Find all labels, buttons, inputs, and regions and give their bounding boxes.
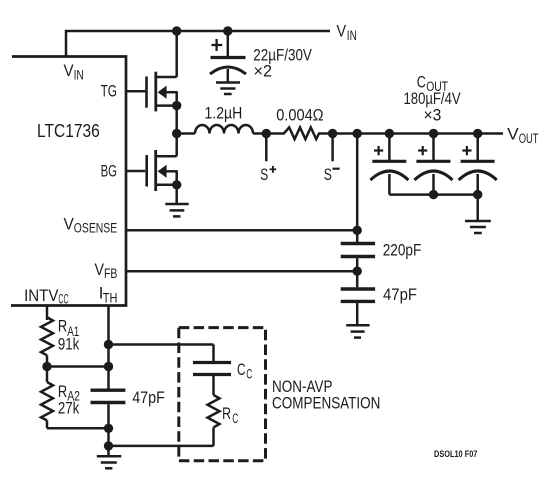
node label S- superscript minus [333, 168, 340, 170]
label NON-AVP COMPENSATION [272, 377, 380, 413]
wire RA1 to divider node [46, 355, 49, 366]
wire ITH to compensation [109, 343, 214, 346]
node S- junction [328, 129, 337, 138]
value label 22uF/30V x2 [253, 46, 312, 81]
svg-text:R: R [222, 404, 231, 423]
net label VIN [337, 22, 357, 44]
pin ITH label [99, 284, 118, 307]
value label 47pF [132, 388, 165, 407]
wire VIN feed from box top to rail [66, 31, 330, 57]
node junction on VIN rail at C1 [223, 26, 232, 35]
node junction C4 bottom [104, 424, 113, 433]
svg-text:V: V [507, 124, 519, 143]
svg-text:S: S [324, 165, 332, 184]
wire RA2 bottom to ground column [47, 427, 109, 430]
pin BG label [101, 161, 117, 180]
svg-text:S: S [260, 165, 268, 184]
value label CC [237, 360, 252, 382]
svg-text:R: R [58, 317, 67, 336]
wire ground stub [107, 446, 110, 455]
svg-text:LTC1736: LTC1736 [37, 120, 100, 141]
svg-text:IN: IN [347, 28, 357, 44]
node junction feedback tap [353, 129, 362, 138]
wire Q1 drain to VIN rail [175, 31, 178, 77]
svg-text:×2: ×2 [254, 62, 273, 81]
IC U1 LTC1736 controller box [11, 57, 126, 306]
svg-text:INTV: INTV [24, 286, 59, 305]
resistor RA1 91k [41, 317, 53, 355]
value label 1.2uH [205, 104, 243, 123]
svg-text:TG: TG [101, 81, 117, 100]
node Q2 source/body junction [172, 180, 181, 189]
node junction COUT c [473, 129, 482, 138]
svg-text:OUT: OUT [519, 131, 539, 147]
svg-text:IN: IN [74, 67, 84, 83]
node junction on VIN rail at Q1 drain [172, 26, 181, 35]
resistor RA2 27k [41, 367, 53, 429]
inductor L1 1.2uH [177, 125, 267, 134]
wire ITH to CC [212, 345, 215, 362]
svg-text:0.004Ω: 0.004Ω [276, 105, 323, 124]
node ground junction [104, 441, 113, 450]
node junction COUT bottom b [429, 190, 438, 199]
pin TG label [101, 81, 117, 100]
wire TG pin to Q1 gate [126, 90, 145, 93]
resistor RSENSE 0.004 ohm [266, 127, 332, 139]
svg-text:C: C [232, 411, 238, 427]
value label 220pF [383, 240, 422, 259]
capacitor COUT c 180uF [459, 134, 497, 195]
svg-text:OSENSE: OSENSE [74, 221, 117, 237]
node label S- [324, 165, 332, 184]
pin VFB label [95, 260, 118, 282]
wire RC bottom return [109, 445, 214, 448]
figure label DSOL10 F07 [434, 449, 477, 460]
value label COUT 180uF/4V x3 [404, 73, 462, 125]
svg-text:47pF: 47pF [383, 285, 417, 304]
node switch node junction [172, 129, 181, 138]
wire BG pin to Q2 gate [126, 170, 145, 173]
svg-text:DSOL10 F07: DSOL10 F07 [434, 449, 477, 460]
wire INTVCC pin down [46, 306, 49, 321]
node junction COUT bottom c [473, 190, 482, 199]
dashed compensation box [179, 328, 266, 461]
pin VOSENSE label [64, 214, 118, 236]
resistor RC [208, 395, 220, 427]
svg-text:TH: TH [103, 290, 118, 306]
wire VFB line [126, 270, 357, 273]
node label S+ superscript plus [270, 166, 277, 173]
wire divider node to ITH column [47, 365, 109, 368]
svg-text:91k: 91k [58, 335, 80, 354]
value label RA1 91k [58, 317, 80, 354]
node junction VOSENSE tap [353, 226, 362, 235]
svg-text:V: V [337, 22, 347, 41]
wire ITH pin down [107, 306, 110, 345]
node junction ITH/divider [104, 362, 113, 371]
svg-text:FB: FB [104, 266, 117, 282]
value label RC [222, 404, 238, 427]
node Q1 source/body junction [172, 101, 181, 110]
wire VOSENSE line [126, 229, 357, 232]
value label RA2 27k [58, 382, 80, 418]
node junction COUT a [385, 129, 394, 138]
svg-text:×3: ×3 [424, 105, 442, 124]
wire COUT bottom bus [389, 193, 477, 196]
svg-text:CC: CC [58, 291, 68, 307]
capacitor COUT b 180uF [415, 134, 453, 195]
ground under C1 [216, 83, 240, 95]
wire Q1 source to switch node [175, 106, 178, 134]
ground bottom network [97, 456, 122, 468]
capacitor C3 47pF [341, 271, 375, 324]
node junction VFB tap [353, 267, 362, 276]
ground under COUT [465, 221, 491, 233]
value label 0.004 ohm [276, 105, 323, 124]
ground under C3 [346, 325, 369, 337]
svg-text:C: C [246, 366, 252, 382]
capacitor CC [193, 363, 231, 375]
svg-text:47pF: 47pF [132, 388, 165, 407]
wire COUT bus to ground [476, 195, 479, 220]
node S+ junction [262, 129, 271, 138]
wire Q2 source to ground [175, 185, 178, 203]
svg-text:1.2µH: 1.2µH [205, 104, 243, 123]
capacitor COUT a 180uF [370, 134, 408, 195]
svg-text:BG: BG [101, 161, 117, 180]
svg-text:COMPENSATION: COMPENSATION [272, 394, 380, 413]
wire to ground node [107, 428, 110, 446]
value label 47pF [383, 285, 417, 304]
wire ITH column [107, 345, 110, 389]
net label VOUT [507, 124, 539, 147]
capacitor C2 220pF [341, 244, 375, 272]
node label S+ [260, 165, 268, 184]
U1 part label LTC1736 [37, 120, 100, 141]
svg-text:220pF: 220pF [383, 240, 422, 259]
node ITH junction [104, 340, 113, 349]
wire CC to RC [212, 376, 215, 395]
node divider junction [42, 362, 51, 371]
wire Q2 drain to switch node [175, 134, 178, 157]
pin INTVCC label [24, 286, 68, 308]
wire RC to return [212, 427, 215, 446]
svg-text:C: C [237, 360, 246, 379]
ground under Q2 [165, 204, 188, 216]
pin VIN label [64, 61, 84, 83]
wire S+ stub [265, 134, 268, 162]
wire VOUT rail [333, 132, 503, 135]
svg-text:27k: 27k [58, 399, 80, 418]
capacitor C1 22uF/30V input cap [210, 31, 246, 82]
transistor Q1 top N-MOSFET [147, 72, 178, 112]
wire feedback column upper [356, 134, 359, 243]
transistor Q2 bottom N-MOSFET [147, 150, 178, 191]
node junction COUT b [429, 129, 438, 138]
wire S- stub [331, 134, 334, 162]
capacitor C4 47pF [91, 390, 126, 428]
